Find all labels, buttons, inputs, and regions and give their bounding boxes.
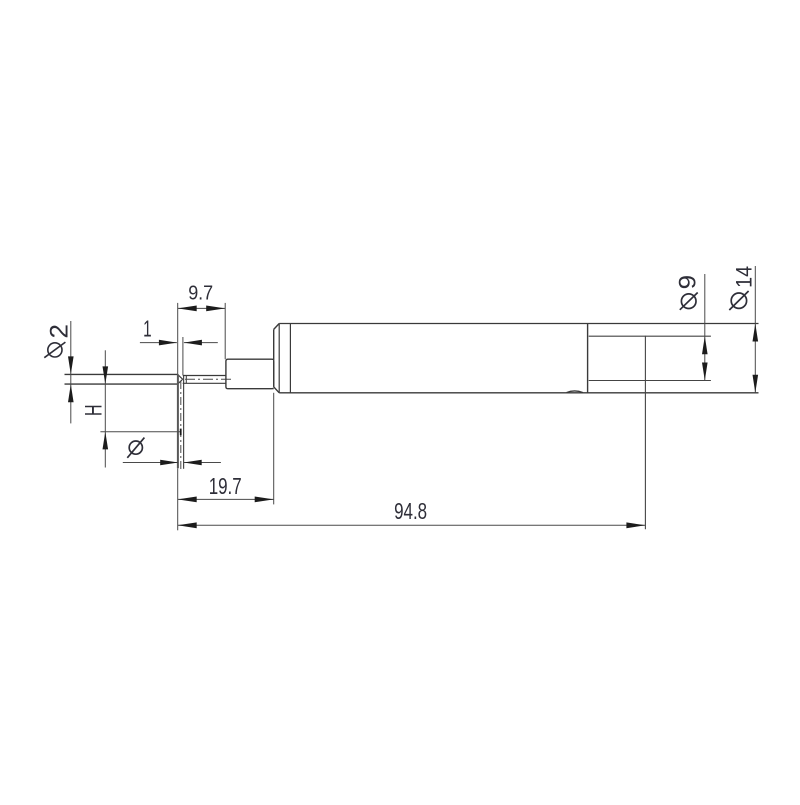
svg-text:19.7: 19.7	[209, 473, 242, 499]
label phi9 symbol	[680, 293, 698, 310]
axis centerline dash-dot	[185, 378, 234, 380]
body top edge and phi14 extension	[279, 323, 758, 325]
svg-text:1: 1	[143, 315, 152, 341]
arrowhead 9.7 left	[178, 306, 197, 312]
neck top edge	[183, 375, 226, 377]
cone tip lower	[178, 379, 183, 384]
arrowhead H bottom	[103, 432, 109, 450]
small cylinder outline	[226, 359, 274, 389]
dimension line phi9	[704, 274, 706, 381]
phi9 top edge and extension	[589, 335, 711, 337]
arrowhead phi14 top	[753, 324, 759, 342]
arrowhead H top	[103, 366, 109, 384]
neck step line	[185, 376, 187, 384]
arrowhead phi blade left	[160, 460, 178, 466]
rod bottom edge	[65, 383, 178, 385]
dimension line 19.7	[178, 498, 274, 500]
extension line 1 right	[182, 337, 184, 375]
svg-text:14: 14	[732, 266, 757, 288]
dimension line 1 right tail	[184, 342, 218, 344]
body top chamfer	[274, 324, 280, 330]
collar line	[289, 324, 291, 393]
svg-text:9: 9	[675, 275, 702, 290]
dimension line phi14	[754, 266, 756, 393]
extension line 9.7 left	[177, 303, 179, 375]
arrowhead 1 left	[159, 340, 177, 346]
dimension line 9.7	[178, 307, 226, 309]
arrowhead 94.8 left	[178, 522, 197, 528]
arrowhead phi9 top	[702, 336, 708, 354]
arrowhead 1 right	[184, 340, 202, 346]
label phi2 symbol	[44, 342, 65, 358]
phi9 bottom edge and extension	[589, 380, 711, 382]
arrowhead 19.7 left	[178, 497, 197, 503]
svg-text:H: H	[81, 405, 108, 417]
arrowhead 9.7 right	[206, 306, 225, 312]
body bottom edge	[279, 392, 758, 394]
dimension line phi blade left tail	[123, 462, 178, 464]
body bottom chamfer	[274, 387, 280, 393]
body left face	[273, 329, 275, 387]
body right step	[587, 324, 589, 393]
svg-text:9.7: 9.7	[188, 282, 213, 304]
dimension line 94.8	[178, 524, 646, 526]
arrowhead phi2 top	[68, 356, 74, 374]
arrowhead phi9 bottom	[702, 363, 708, 381]
spigot end face and 94.8 extension	[644, 336, 646, 530]
arrowhead phi2 bottom	[68, 384, 74, 402]
arrowhead 19.7 right	[255, 497, 274, 503]
extension line body face down	[273, 393, 275, 505]
arrowhead phi blade right	[184, 460, 202, 466]
dimension line phi blade right tail	[184, 462, 221, 464]
label phi blade symbol	[127, 438, 144, 458]
dimension line phi2	[70, 321, 72, 423]
arrowhead phi14 bottom	[753, 375, 759, 393]
arrowhead 94.8 right	[626, 522, 645, 528]
label phi14 symbol	[729, 291, 748, 310]
chamfer tangent line	[278, 324, 280, 393]
cone tip upper	[178, 374, 183, 379]
extension line blade center level	[100, 431, 180, 433]
svg-text:94.8: 94.8	[394, 498, 427, 524]
extension line below blade	[177, 468, 179, 530]
extension line 9.7 right	[224, 303, 226, 359]
blade centerline dash-dot	[180, 381, 182, 469]
dimension line 1 left tail	[140, 342, 177, 344]
svg-text:2: 2	[46, 324, 74, 339]
undercut groove arc	[567, 391, 584, 393]
rod top edge	[65, 373, 178, 375]
dimension line H	[104, 350, 106, 467]
tick at blade center	[180, 429, 182, 436]
blade right edge	[183, 375, 185, 469]
blade left edge	[177, 374, 179, 468]
neck bottom edge	[183, 382, 226, 384]
